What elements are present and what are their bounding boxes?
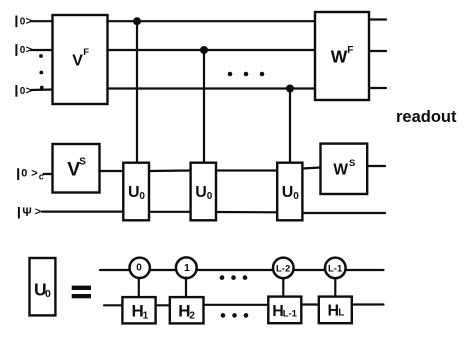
horizontal ellipsis upper — [220, 275, 248, 280]
svg-text:L-1: L-1 — [283, 309, 298, 320]
wire S between U0(1) and U0(2) — [149, 169, 191, 172]
gate box H1 — [122, 297, 155, 323]
svg-text:2: 2 — [189, 311, 195, 322]
svg-text:0: 0 — [293, 191, 299, 202]
wire top rail segment 5 — [346, 269, 384, 271]
wire qubit-n input — [31, 88, 53, 91]
wire bottom rail segment 3 — [204, 304, 269, 306]
vertical ellipsis (more qubits) — [39, 54, 44, 89]
svg-text:V: V — [72, 52, 83, 69]
svg-text:readout: readout — [396, 108, 457, 126]
node |0> ket label (top qubit n) — [15, 85, 32, 97]
svg-text:U: U — [128, 184, 140, 201]
svg-text:>: > — [35, 206, 41, 218]
svg-text:W: W — [331, 46, 348, 66]
gate box HL-1 — [268, 297, 301, 324]
svg-text:F: F — [347, 45, 353, 56]
svg-text:>: > — [31, 168, 37, 180]
gate box U0 (third) — [277, 163, 302, 221]
svg-text:L: L — [338, 308, 344, 319]
svg-text:S: S — [79, 157, 86, 168]
wire S between V^S and U0(1) — [100, 170, 124, 172]
control dot node on wire F3 — [286, 85, 294, 93]
wire bottom rail segment 5 — [352, 303, 384, 305]
svg-text:L-1: L-1 — [328, 263, 343, 274]
wire S between U0(2) and U0(3) — [216, 169, 277, 171]
svg-text:0: 0 — [139, 191, 145, 202]
wire psi between U0(2) and U0(3) — [216, 211, 277, 214]
node |0> ket label (top qubit 1) — [15, 15, 32, 27]
control circle L-1 — [325, 258, 346, 279]
legend gate box U0 — [30, 258, 56, 315]
horizontal ellipsis (more controls) — [228, 72, 265, 77]
node |0> ket label (top qubit 2) — [15, 44, 32, 56]
gate box U0 (second) — [191, 163, 216, 221]
connector L-2 to HL-1 — [282, 278, 284, 296]
svg-text:U: U — [282, 184, 294, 201]
control wire 3 (vertical) — [289, 89, 291, 163]
wire F2 output stub — [369, 50, 386, 52]
svg-text:W: W — [333, 162, 348, 179]
connector circle1 to H2 — [185, 278, 187, 298]
control circle L-2 — [273, 258, 294, 279]
wire psi between U0(1) and U0(2) — [149, 211, 191, 213]
gate box W^S — [321, 144, 368, 194]
node |psi> ket label — [18, 206, 41, 219]
wire F1 output stub — [369, 18, 386, 20]
wire F1 between V^F and W^F — [108, 20, 316, 22]
wire top rail segment 4 — [294, 269, 325, 271]
wire psi input — [42, 211, 123, 213]
wire bottom rail segment 4 — [301, 303, 319, 305]
svg-text:S: S — [349, 158, 355, 169]
wire S between U0(3) and W^S — [303, 168, 321, 169]
wire S output stub — [368, 165, 385, 167]
svg-text:Ψ: Ψ — [22, 207, 31, 219]
wire top rail segment 3 — [196, 269, 273, 271]
gate box HL — [319, 297, 352, 324]
connector circle0 to H1 — [138, 278, 140, 297]
gate box W^F — [315, 12, 369, 100]
control circle 1 — [176, 257, 197, 278]
svg-text:0: 0 — [136, 262, 142, 273]
svg-text:1: 1 — [143, 311, 149, 322]
horizontal ellipsis lower — [221, 313, 249, 318]
wire F2 between V^F and W^F — [108, 49, 316, 51]
wire bottom rail segment 1 — [104, 304, 122, 306]
gate box V^F — [53, 15, 108, 104]
wire top rail segment 2 — [150, 269, 176, 271]
wire control qubit input — [44, 173, 54, 175]
connector L-1 to HL — [334, 278, 336, 296]
control circle 0 — [130, 258, 150, 278]
gate box V^S — [53, 144, 100, 193]
wire qubit1 input — [31, 20, 53, 22]
svg-text:0: 0 — [21, 168, 27, 180]
svg-text:0: 0 — [45, 288, 51, 300]
svg-text:U: U — [195, 184, 207, 201]
svg-text:1: 1 — [184, 262, 190, 274]
control wire 2 (vertical) — [203, 50, 205, 163]
wire F3 output stub — [369, 87, 386, 89]
wire psi after U0(3) — [303, 212, 386, 214]
wire top rail segment 1 — [100, 269, 130, 271]
wire F3 between V^F and W^F — [108, 87, 316, 89]
svg-text:F: F — [83, 47, 89, 58]
control wire 1 (vertical) — [136, 21, 138, 163]
node |0> ket label (control qubit) with subscript c — [17, 168, 44, 182]
svg-text:L-2: L-2 — [276, 263, 290, 274]
svg-text:0: 0 — [207, 191, 213, 202]
control dot node on wire F2 — [200, 46, 208, 54]
equals sign — [72, 286, 91, 299]
gate box H2 — [170, 297, 204, 323]
gate box U0 (first) — [123, 163, 149, 221]
wire bottom rail segment 2 — [156, 304, 170, 306]
control dot node on wire F1 — [133, 17, 141, 25]
wire qubit2 input — [31, 49, 53, 51]
